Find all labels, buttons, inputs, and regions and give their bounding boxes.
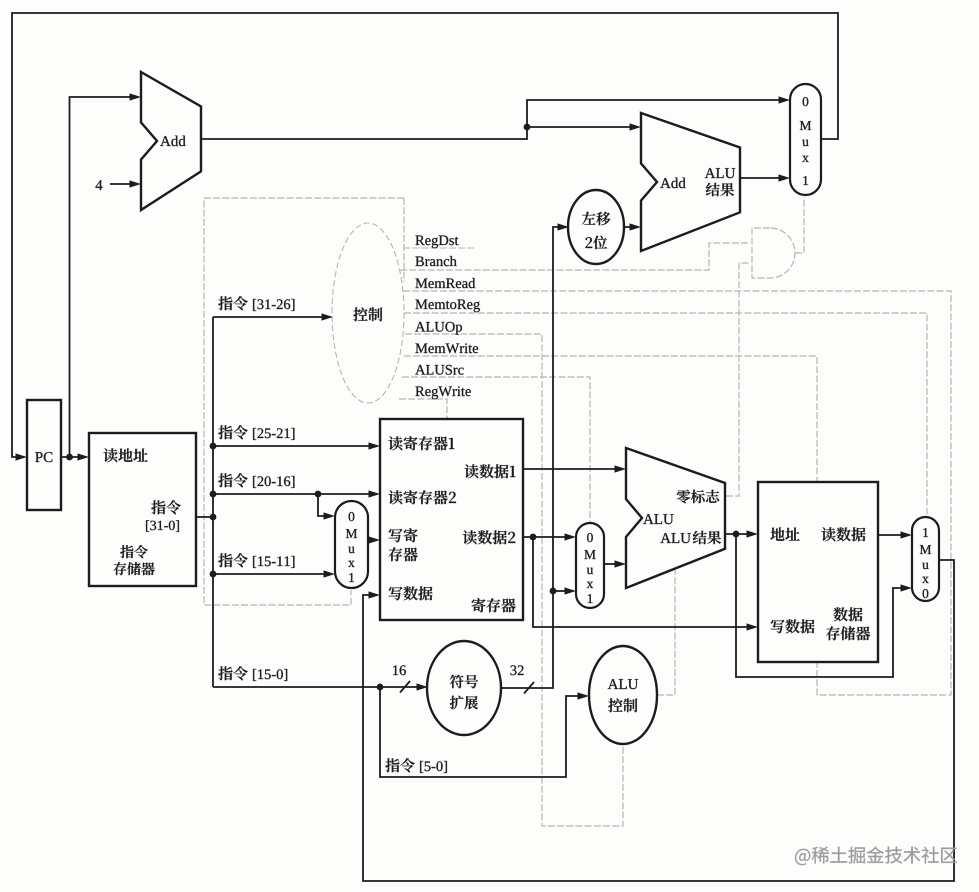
shift left 2 unit <box>568 190 624 264</box>
wire ALU control output to ALU select input <box>657 570 675 695</box>
wire instruction bus vertical <box>210 317 217 687</box>
Mux2 PC source top right (0/1) <box>790 84 821 195</box>
wire RegDst routing (dashed control-section box, left loop to Mux1 select) <box>204 198 404 605</box>
control unit U-CTRL oval outline <box>332 223 404 403</box>
wire read data 1 to ALU input <box>523 465 626 472</box>
wire PC output riser to Add1 <box>70 93 142 457</box>
wire PC output to instruction memory read-address <box>61 453 89 460</box>
wire MemRead signal to data memory bottom <box>403 291 951 695</box>
wire data memory read data to Mux4 input 1 <box>878 531 912 538</box>
adder Add2 (branch target) <box>641 113 740 251</box>
wire shift-left-2 output to Add2 <box>623 223 641 230</box>
PC register <box>27 400 61 510</box>
node constant 4 into Add1 <box>95 180 141 190</box>
sign extend unit <box>427 641 501 735</box>
wire instruction [5-0] to ALU control <box>380 687 589 777</box>
wire Add2 branch-target result to Mux2 input 1 <box>740 174 790 181</box>
wire Zero flag from ALU to AND gate <box>726 263 750 496</box>
wire ALU result to Mux4 input 0 <box>736 534 912 677</box>
Mux3 ALU source (0/1) <box>576 523 604 608</box>
wire MemWrite signal to data memory top <box>404 356 817 481</box>
AND gate U-AND (branch and zero) <box>752 228 795 278</box>
adder Add1 (PC+4) <box>141 72 201 210</box>
register file <box>380 419 523 620</box>
wire PC+4 to Mux2 input 0 <box>527 96 790 127</box>
wire instruction [20-16] branch to Mux1 input 0 <box>315 491 335 520</box>
wire ALU result to data memory address <box>725 530 758 537</box>
Mux1 register destination (0/1) <box>335 501 368 588</box>
wire write-back from Mux4 to register file write data <box>363 560 954 881</box>
wire Add1 result (PC+4) <box>201 123 641 139</box>
wire RegDst stub from control oval <box>403 247 476 249</box>
wire instruction [20-16] to read register 2 <box>213 473 380 497</box>
wire Mux3 output to ALU input <box>604 560 626 567</box>
node watermark juejin community <box>795 846 957 865</box>
wire AND gate output to Mux2 select <box>795 197 804 253</box>
wire instruction memory output to instruction bus <box>196 514 216 521</box>
ALU control unit <box>589 646 657 744</box>
wire Mux1 output to write register port <box>368 536 380 543</box>
node control signal name labels <box>415 236 480 400</box>
wire PC write-back loop (Mux2 output to PC input, around the top) <box>12 13 838 461</box>
wire sign-extend output (32 bits) riser to shift-left-2 <box>501 223 569 693</box>
wire ALUOp signal to ALU control <box>405 334 623 826</box>
wire sign-extend output to Mux3 input 1 <box>550 587 576 594</box>
wire instruction [15-0] to sign extend <box>213 665 428 692</box>
wire read data 2 branch to data memory write data <box>533 537 758 631</box>
instruction memory <box>89 433 196 586</box>
ALU main <box>626 448 725 588</box>
wire instruction [31-26] to control <box>213 296 333 320</box>
data memory <box>758 482 878 662</box>
wire instruction [15-11] to Mux1 input 1 <box>213 553 335 577</box>
control unit label <box>353 307 382 321</box>
wire read data 2 to Mux3 input 0 <box>523 533 576 540</box>
wire Branch signal to AND gate <box>400 243 750 270</box>
Mux4 memory-to-register (1/0) <box>912 517 939 601</box>
wire MemtoReg signal to Mux4 select <box>404 313 927 516</box>
wire ALUSrc signal to Mux3 select <box>402 377 590 522</box>
wire RegWrite signal to register file <box>399 399 447 418</box>
wire instruction [25-21] to read register 1 <box>213 425 380 449</box>
